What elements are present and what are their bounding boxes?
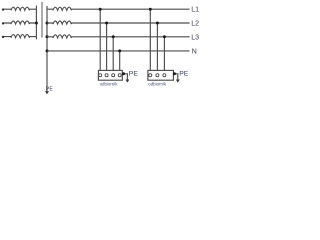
svg-text:odbiornik: odbiornik — [100, 82, 119, 87]
transformer T1 secondary winding W4 + bus L1 — [47, 7, 190, 10]
junction primary star-point — [35, 22, 38, 25]
terminal circle load2 L3 — [163, 74, 166, 77]
junction load1 N tap — [118, 49, 121, 52]
terminal circle load2 L2 — [156, 74, 159, 77]
terminal dot primary phase 1 — [2, 8, 4, 10]
transformer T1 primary winding W2 (middle phase) — [3, 21, 36, 24]
terminal circle load2 L1 — [149, 74, 152, 77]
primary star-point bus wire — [35, 6, 37, 40]
junction load2 L2 tap — [156, 22, 159, 25]
terminal circle load1 L2 — [105, 74, 108, 77]
terminal circle load1 L3 — [112, 74, 115, 77]
terminal dot primary phase 2 — [2, 22, 4, 24]
transformer T1 primary winding W3 (bottom phase) — [3, 35, 36, 38]
junction load2 L1 tap — [149, 8, 152, 11]
bus N wire — [47, 50, 190, 52]
wire drop load1 L2 — [106, 23, 108, 74]
transformer T1 primary winding W1 (top phase) — [3, 7, 36, 10]
wire drop load2 L1 — [149, 9, 151, 74]
ground arrow main PE electrode — [45, 91, 49, 94]
terminal circle load1 N — [118, 74, 121, 77]
wire drop load1 L1 — [99, 9, 101, 74]
wire load1 PE bond — [122, 74, 127, 80]
transformer T1 secondary winding W5 + bus L2 — [47, 21, 190, 24]
junction load2 PE — [173, 72, 176, 75]
junction load1 L1 tap — [99, 8, 102, 11]
svg-text:L1: L1 — [191, 7, 199, 14]
wire drop load2 L2 — [156, 23, 158, 74]
svg-text:PE: PE — [179, 71, 189, 78]
svg-text:L2: L2 — [191, 21, 199, 28]
svg-text:L3: L3 — [191, 34, 199, 41]
transformer T1 secondary winding W6 + bus L3 — [47, 35, 190, 38]
load box 1 (odbiornik) — [98, 70, 122, 80]
transformer core — [41, 2, 43, 38]
junction load1 L3 tap — [112, 35, 115, 38]
ground arrow load1 PE — [125, 80, 129, 83]
svg-text:odbiornik: odbiornik — [148, 82, 167, 87]
wire drop load2 L3 — [163, 37, 165, 74]
junction load1 PE — [122, 72, 125, 75]
load box 2 (odbiornik) — [148, 70, 174, 80]
junction load1 L2 tap — [105, 22, 108, 25]
wire drop load1 L3 — [112, 37, 114, 74]
junction secondary star phase 3 — [46, 35, 49, 38]
ground arrow load2 PE — [176, 80, 180, 83]
secondary star / PEN conductor vertical wire — [46, 6, 48, 91]
junction load2 L3 tap — [163, 35, 166, 38]
wire load2 PE bond — [173, 74, 177, 80]
junction N take-off — [46, 49, 49, 52]
svg-text:PE: PE — [46, 87, 54, 93]
svg-text:N: N — [192, 48, 197, 55]
terminal circle load1 L1 — [99, 74, 102, 77]
wire drop load1 N — [119, 51, 121, 74]
svg-text:PE: PE — [129, 71, 139, 78]
junction secondary star phase 2 — [46, 22, 49, 25]
terminal dot primary phase 3 — [2, 36, 4, 38]
